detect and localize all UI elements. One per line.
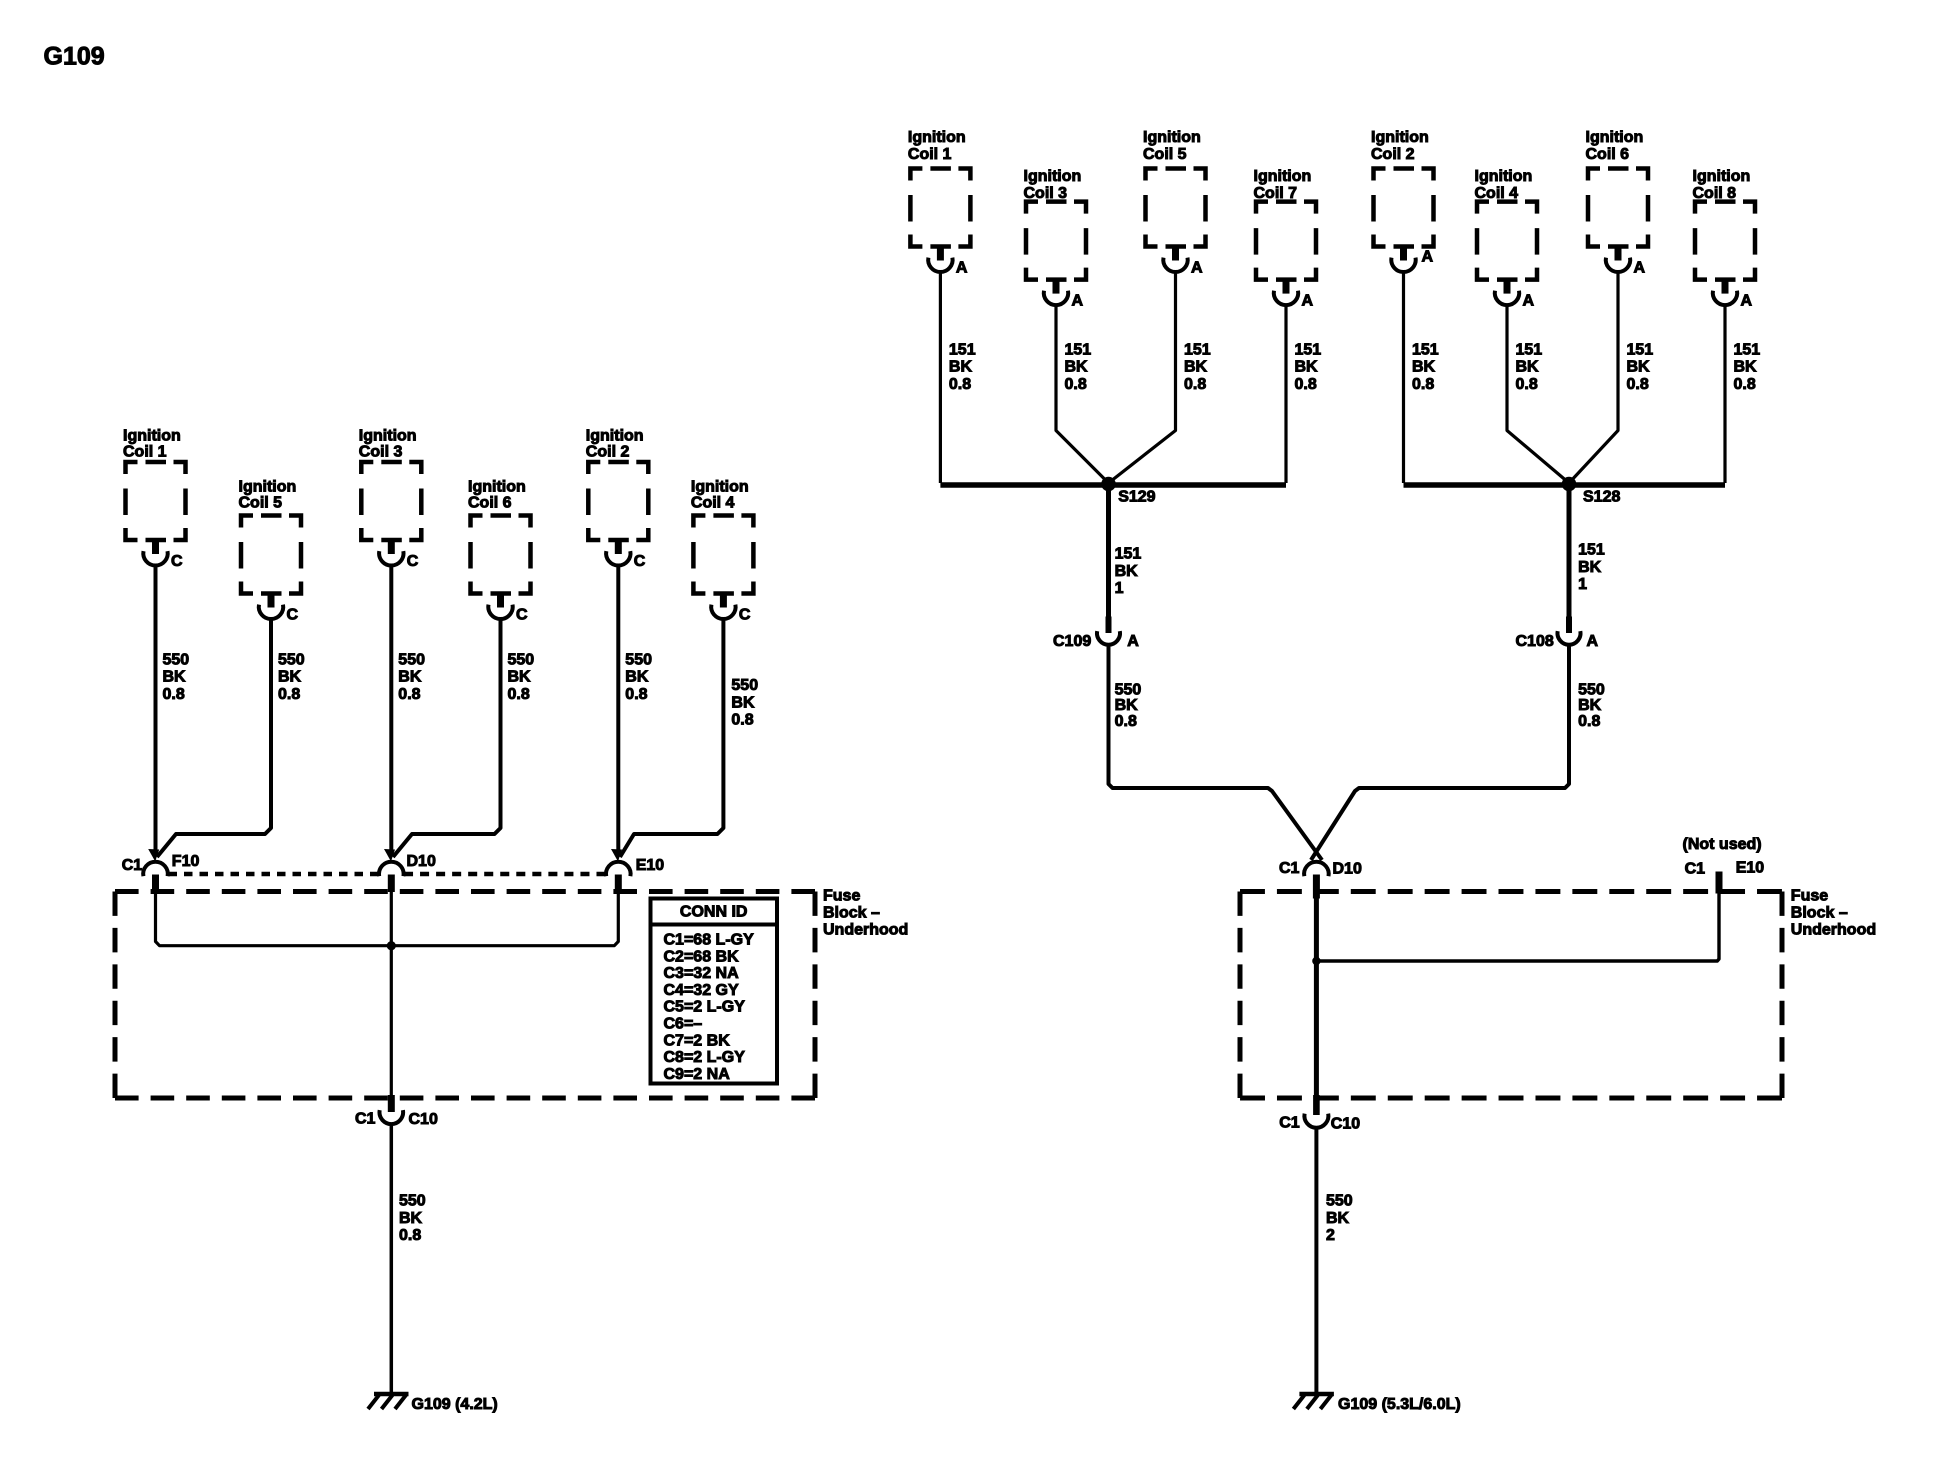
svg-text:0.8: 0.8 (625, 686, 647, 703)
ignition coil 7 (5.3L/6.0L bank) (1254, 168, 1317, 310)
svg-text:C7=2 BK: C7=2 BK (664, 1032, 731, 1049)
svg-text:550: 550 (731, 677, 758, 694)
ignition coil 1 (5.3L/6.0L bank) (908, 129, 971, 276)
ignition coil 4 (5.3L/6.0L bank) (1475, 168, 1538, 310)
ground G109 (5.3L/6.0L) (1293, 1394, 1460, 1413)
svg-text:A: A (956, 259, 968, 276)
svg-text:151: 151 (1184, 341, 1211, 358)
value label 550 BK 0.8 (C109 side) (1115, 681, 1142, 730)
svg-text:C: C (739, 606, 751, 623)
svg-text:C4=32 GY: C4=32 GY (664, 982, 739, 999)
svg-text:1: 1 (1115, 580, 1124, 597)
svg-text:Coil 3: Coil 3 (359, 444, 403, 461)
svg-text:550: 550 (399, 1193, 426, 1210)
wire F10 to internal bus (left box) (156, 892, 389, 946)
svg-text:S129: S129 (1118, 489, 1155, 506)
svg-text:0.8: 0.8 (949, 376, 971, 393)
svg-text:G109 (4.2L): G109 (4.2L) (412, 1396, 498, 1413)
value label 151 BK 0.8 (coil 3 wire) (1065, 341, 1092, 393)
svg-text:Coil 7: Coil 7 (1254, 185, 1298, 202)
ground G109 (4.2L) (368, 1394, 498, 1413)
value label 550 BK 0.8 (coil 3 wire) (398, 651, 425, 703)
svg-text:151: 151 (1115, 546, 1142, 563)
svg-text:A: A (1127, 633, 1139, 650)
svg-text:C10: C10 (409, 1111, 438, 1128)
ignition coil 3 (5.3L/6.0L bank) (1024, 168, 1087, 310)
svg-text:E10: E10 (1736, 860, 1765, 877)
value label 550 BK 0.8 (left ground wire) (399, 1193, 426, 1245)
svg-text:0.8: 0.8 (399, 1227, 421, 1244)
value label 550 BK 0.8 (coil 1 wire) (163, 651, 190, 703)
ignition coil 6 (5.3L/6.0L bank) (1586, 129, 1649, 276)
svg-text:0.8: 0.8 (1295, 376, 1317, 393)
svg-text:BK: BK (1115, 697, 1139, 714)
svg-text:BK: BK (1516, 359, 1540, 376)
svg-text:Fuse: Fuse (1791, 888, 1828, 905)
value label 151 BK 1 (right) (1578, 542, 1605, 594)
svg-text:C1: C1 (1279, 860, 1300, 877)
connector C1 pin E10 (not used) (1683, 836, 1765, 893)
svg-text:C1: C1 (122, 857, 143, 874)
svg-text:151: 151 (1412, 341, 1439, 358)
svg-text:Ignition: Ignition (1143, 129, 1201, 146)
svg-text:Ignition: Ignition (1475, 168, 1533, 185)
svg-text:D10: D10 (1333, 861, 1362, 878)
node G109 title (44, 42, 105, 70)
value label 550 BK 2 (1326, 1193, 1353, 1245)
svg-text:C3=32 NA: C3=32 NA (664, 965, 740, 982)
connector C1 pin C10 (right box bottom) (1279, 1095, 1360, 1133)
svg-text:CONN ID: CONN ID (680, 904, 748, 921)
ignition coil 8 (5.3L/6.0L bank) (1693, 168, 1756, 310)
svg-text:A: A (1191, 259, 1203, 276)
svg-text:0.8: 0.8 (1516, 376, 1538, 393)
svg-text:C1: C1 (1279, 1115, 1300, 1132)
svg-text:2: 2 (1326, 1227, 1335, 1244)
svg-text:BK: BK (1326, 1210, 1350, 1227)
svg-text:C: C (171, 553, 183, 570)
wire 151 BK 0.8 coil 1 to S129 (939, 272, 942, 483)
value label 151 BK 0.8 (coil 1 wire) (949, 341, 976, 393)
wire bus into splice S128 (1404, 482, 1726, 488)
ignition coil 3 (4.2L bank) (359, 428, 422, 570)
svg-text:BK: BK (1578, 697, 1602, 714)
svg-text:Coil 6: Coil 6 (1586, 146, 1630, 163)
splice S129 (1101, 477, 1155, 506)
svg-text:Ignition: Ignition (239, 478, 297, 495)
svg-text:A: A (1741, 292, 1753, 309)
svg-text:0.8: 0.8 (1065, 376, 1087, 393)
wire D10 trunk through right box (1314, 896, 1319, 1098)
svg-text:550: 550 (163, 651, 190, 668)
ignition coil 6 (4.2L bank) (468, 478, 531, 623)
svg-text:C109: C109 (1053, 633, 1091, 650)
svg-text:Ignition: Ignition (1693, 168, 1751, 185)
svg-text:BK: BK (731, 694, 755, 711)
value label 550 BK 0.8 (C108 side) (1578, 681, 1605, 730)
svg-text:0.8: 0.8 (278, 686, 300, 703)
svg-text:Ignition: Ignition (1024, 168, 1082, 185)
svg-text:1: 1 (1578, 576, 1587, 593)
svg-text:0.8: 0.8 (163, 686, 185, 703)
ignition coil 2 (5.3L/6.0L bank) (1371, 129, 1434, 272)
svg-text:Block –: Block – (823, 905, 880, 922)
svg-text:(Not used): (Not used) (1683, 836, 1762, 853)
svg-text:Coil 1: Coil 1 (123, 444, 167, 461)
svg-text:Coil 8: Coil 8 (1693, 185, 1737, 202)
svg-text:Coil 5: Coil 5 (239, 495, 283, 512)
fuse block - underhood (right, dashed box) (1240, 892, 1782, 1099)
wire 550 BK 0.8 from coil 5 to C1/F10 (157, 619, 271, 857)
svg-text:0.8: 0.8 (1412, 376, 1434, 393)
svg-text:BK: BK (508, 669, 532, 686)
svg-text:Coil 4: Coil 4 (1475, 185, 1519, 202)
svg-text:BK: BK (399, 1210, 423, 1227)
svg-text:BK: BK (278, 669, 302, 686)
wire 151 BK 0.8 coil 4 to S128 (1507, 305, 1569, 483)
svg-text:Coil 6: Coil 6 (468, 495, 512, 512)
svg-text:Coil 3: Coil 3 (1024, 185, 1068, 202)
svg-text:Ignition: Ignition (586, 428, 644, 445)
svg-text:BK: BK (1627, 359, 1651, 376)
svg-text:BK: BK (1295, 359, 1319, 376)
wire 550 BK 2 to ground G109 (5.3L/6.0L) (1314, 1128, 1318, 1394)
wire 550 BK 0.8 from coil 2 to E10 (616, 566, 620, 853)
svg-text:Block –: Block – (1791, 905, 1848, 922)
connector C108 pin A (1516, 617, 1599, 651)
value label 151 BK 0.8 (coil 2 wire) (1412, 341, 1439, 393)
wire D10 trunk through left box (390, 892, 393, 1097)
svg-text:C108: C108 (1516, 633, 1554, 650)
connector C1 pin C10 (left box bottom) (355, 1095, 438, 1128)
svg-text:BK: BK (625, 669, 649, 686)
svg-text:BK: BK (949, 359, 973, 376)
junction node (left box bus) (387, 941, 396, 950)
svg-text:BK: BK (1734, 359, 1758, 376)
svg-text:BK: BK (163, 669, 187, 686)
svg-text:BK: BK (1065, 359, 1089, 376)
svg-text:C: C (516, 606, 528, 623)
svg-text:C8=2 L-GY: C8=2 L-GY (664, 1049, 746, 1066)
svg-text:0.8: 0.8 (1734, 376, 1756, 393)
connector C1 pin D10 (fuse block underhood, right) (1279, 860, 1362, 899)
svg-text:Ignition: Ignition (691, 478, 749, 495)
svg-text:G109: G109 (44, 42, 105, 70)
svg-text:C2=68 BK: C2=68 BK (664, 948, 740, 965)
svg-text:550: 550 (625, 651, 652, 668)
wire 550 BK 0.8 from coil 6 to D10 (393, 619, 501, 857)
svg-text:Ignition: Ignition (1371, 129, 1429, 146)
svg-text:C: C (634, 553, 646, 570)
svg-text:0.8: 0.8 (1184, 376, 1206, 393)
svg-text:Coil 2: Coil 2 (1371, 146, 1415, 163)
value label 151 BK 0.8 (coil 6 wire) (1627, 341, 1654, 393)
value label 550 BK 0.8 (coil 5 wire) (278, 651, 305, 703)
wire E10 to internal bus (left box) (394, 892, 618, 946)
svg-text:F10: F10 (172, 853, 200, 870)
svg-text:Underhood: Underhood (823, 922, 908, 939)
svg-text:BK: BK (1578, 559, 1602, 576)
svg-text:A: A (1072, 292, 1084, 309)
wire 550 BK 0.8 from coil 1 to C1/F10 (154, 566, 158, 853)
svg-text:151: 151 (1627, 341, 1654, 358)
svg-text:550: 550 (1578, 681, 1605, 698)
svg-text:550: 550 (508, 651, 535, 668)
value label 550 BK 0.8 (coil 4 wire) (731, 677, 758, 729)
svg-text:A: A (1302, 292, 1314, 309)
svg-text:C1=68 L-GY: C1=68 L-GY (664, 932, 755, 949)
value label 151 BK 0.8 (coil 4 wire) (1516, 341, 1543, 393)
svg-text:550: 550 (1326, 1193, 1353, 1210)
svg-text:Ignition: Ignition (908, 129, 966, 146)
wire 151 BK 0.8 coil 8 to S128 (1723, 305, 1726, 483)
svg-text:E10: E10 (636, 857, 665, 874)
connector C1 pin F10 (fuse block underhood, left) (122, 849, 200, 892)
svg-text:BK: BK (1184, 359, 1208, 376)
svg-text:550: 550 (1115, 681, 1142, 698)
svg-text:Ignition: Ignition (1586, 129, 1644, 146)
svg-text:S128: S128 (1583, 489, 1620, 506)
wire 151 BK 0.8 coil 7 to S129 (1284, 305, 1287, 483)
svg-text:0.8: 0.8 (731, 712, 753, 729)
wire 550 BK 0.8 from coil 3 to D10 (389, 566, 393, 853)
svg-text:0.8: 0.8 (1115, 713, 1137, 730)
value label 550 BK 0.8 (coil 2 wire) (625, 651, 652, 703)
svg-text:Ignition: Ignition (1254, 168, 1312, 185)
wire 151 BK 1 from S128 to C108 (1567, 485, 1572, 617)
svg-text:Coil 1: Coil 1 (908, 146, 952, 163)
ignition coil 5 (4.2L bank) (239, 478, 302, 623)
ignition coil 4 (4.2L bank) (691, 478, 754, 623)
value label 151 BK 0.8 (coil 8 wire) (1734, 341, 1761, 393)
wire 151 BK 0.8 coil 2 to S128 (1402, 272, 1405, 483)
wire 151 BK 1 from S129 to C109 (1106, 485, 1111, 617)
svg-text:A: A (1523, 292, 1535, 309)
CONN ID table (651, 899, 778, 1084)
svg-text:0.8: 0.8 (1627, 376, 1649, 393)
svg-text:151: 151 (1734, 341, 1761, 358)
connector C109 pin A (1053, 617, 1139, 651)
wire 550 BK 0.8 from C108 to C1/D10 (1311, 646, 1569, 860)
svg-text:Ignition: Ignition (359, 428, 417, 445)
svg-text:C6=–: C6=– (664, 1016, 703, 1033)
value label 151 BK 1 (1115, 546, 1142, 598)
connector C1 pin E10 (fuse block underhood, left) (606, 849, 664, 892)
splice S128 (1562, 477, 1621, 506)
wire junction to E10 (not used) (1316, 892, 1719, 961)
svg-text:151: 151 (1516, 341, 1543, 358)
svg-text:BK: BK (1115, 563, 1139, 580)
svg-text:151: 151 (1295, 341, 1322, 358)
ignition coil 5 (5.3L/6.0L bank) (1143, 129, 1206, 276)
connector C1 pin D10 (fuse block underhood, left) (379, 849, 436, 892)
value label 550 BK 0.8 (coil 6 wire) (508, 651, 535, 703)
svg-text:C10: C10 (1331, 1116, 1360, 1133)
svg-text:151: 151 (949, 341, 976, 358)
wire 151 BK 0.8 coil 5 to S129 (1109, 272, 1176, 483)
svg-text:Fuse: Fuse (823, 888, 860, 905)
svg-text:G109 (5.3L/6.0L): G109 (5.3L/6.0L) (1338, 1396, 1461, 1413)
fuse block - underhood (left, dashed box) (115, 892, 815, 1099)
svg-text:C1: C1 (355, 1111, 376, 1128)
value label 151 BK 0.8 (coil 5 wire) (1184, 341, 1211, 393)
svg-text:550: 550 (278, 651, 305, 668)
svg-text:Ignition: Ignition (468, 478, 526, 495)
wire 550 BK 0.8 from coil 4 to E10 (620, 619, 723, 857)
svg-text:Coil 2: Coil 2 (586, 444, 630, 461)
wire 550 BK 0.8 to ground G109 (4.2L) (390, 1124, 394, 1394)
svg-text:Underhood: Underhood (1791, 922, 1876, 939)
svg-text:151: 151 (1578, 542, 1605, 559)
svg-text:151: 151 (1065, 341, 1092, 358)
svg-text:Coil 4: Coil 4 (691, 495, 735, 512)
svg-text:BK: BK (398, 669, 422, 686)
svg-text:C1: C1 (1685, 860, 1706, 877)
svg-text:0.8: 0.8 (1578, 713, 1600, 730)
junction node (right box) (1312, 957, 1320, 965)
svg-text:0.8: 0.8 (508, 686, 530, 703)
ignition coil 1 (4.2L bank) (123, 428, 186, 570)
dotted connector row between F10 / D10 / E10 (169, 872, 606, 877)
svg-text:550: 550 (398, 651, 425, 668)
svg-text:BK: BK (1412, 359, 1436, 376)
svg-text:C: C (407, 553, 419, 570)
svg-text:C9=2 NA: C9=2 NA (664, 1066, 731, 1083)
svg-text:A: A (1422, 249, 1434, 266)
wire bus into splice S129 (940, 482, 1286, 488)
wire 151 BK 0.8 coil 6 to S128 (1569, 272, 1618, 483)
svg-text:C5=2 L-GY: C5=2 L-GY (664, 999, 746, 1016)
wire 550 BK 0.8 from C109 to C1/D10 (1109, 646, 1323, 860)
svg-text:A: A (1634, 259, 1646, 276)
label Fuse Block - Underhood (right) (1791, 888, 1876, 939)
value label 151 BK 0.8 (coil 7 wire) (1295, 341, 1322, 393)
svg-text:A: A (1587, 633, 1599, 650)
ignition coil 2 (4.2L bank) (586, 428, 649, 570)
svg-text:Ignition: Ignition (123, 428, 181, 445)
svg-text:Coil 5: Coil 5 (1143, 146, 1187, 163)
wire 151 BK 0.8 coil 3 to S129 (1056, 305, 1109, 483)
label Fuse Block - Underhood (left) (823, 888, 908, 939)
svg-text:0.8: 0.8 (398, 686, 420, 703)
svg-text:D10: D10 (407, 853, 436, 870)
svg-text:C: C (287, 606, 299, 623)
